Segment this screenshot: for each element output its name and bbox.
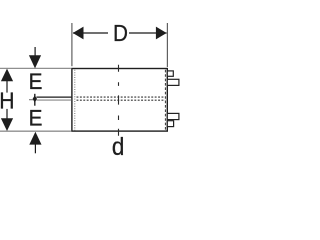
reference line top (gray) <box>0 67 71 69</box>
center pointer left stub <box>29 99 33 101</box>
terminal stub bottom small <box>167 121 173 127</box>
E top arrow down <box>34 47 36 56</box>
terminal stub top small <box>167 71 173 76</box>
hidden dashed line right socket <box>164 70 166 131</box>
dimension line D <box>73 27 167 40</box>
svg-text:E: E <box>29 105 43 131</box>
extension line D right <box>166 23 168 67</box>
H dimension arrow up <box>1 69 13 82</box>
vertical centerline (dash-dot) <box>118 65 120 136</box>
svg-text:D: D <box>113 20 128 46</box>
center pointer tails <box>34 94 36 97</box>
extension line D left <box>71 23 73 66</box>
H dimension arrow down <box>6 109 8 119</box>
hidden dotted line left socket <box>74 70 76 131</box>
svg-text:d: d <box>112 133 125 161</box>
terminal stub bottom wide <box>167 113 179 119</box>
coupling body outline <box>72 69 167 132</box>
E bottom arrow up <box>29 132 41 145</box>
svg-text:E: E <box>29 68 43 94</box>
dashed ridge line lower <box>77 99 166 101</box>
dashed ridge line upper <box>77 96 166 98</box>
terminal stub top wide <box>167 79 179 85</box>
center pointer diamond <box>33 95 37 102</box>
reference line bottom (gray) <box>0 130 71 132</box>
center pointer line gray <box>36 99 71 101</box>
center pointer line dark <box>36 96 71 98</box>
